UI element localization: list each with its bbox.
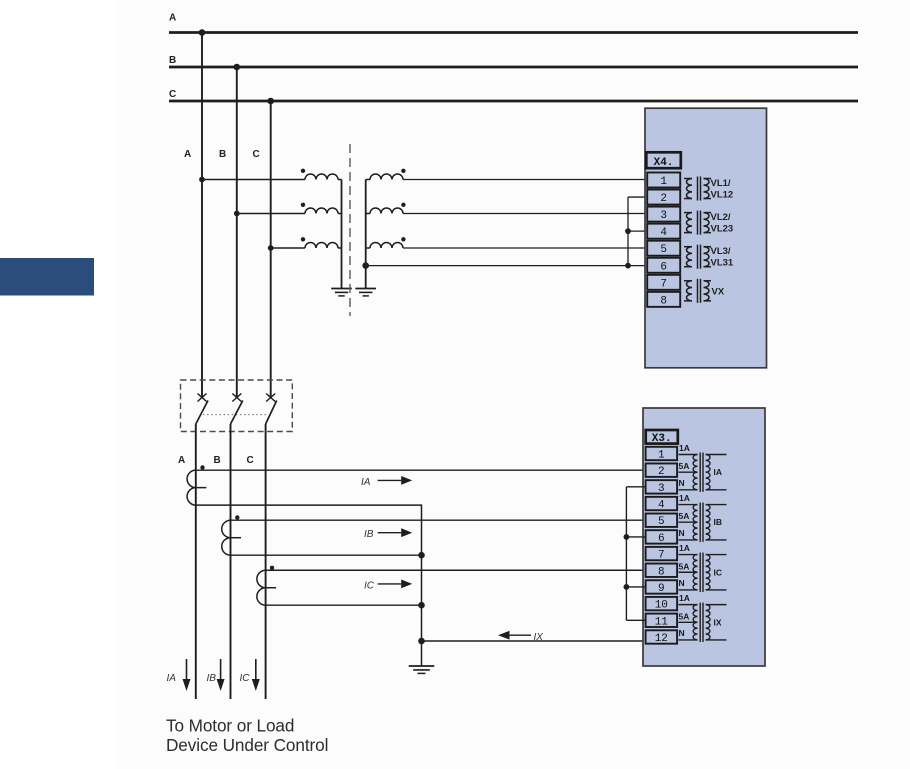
wire PT primary tap phase B (237, 213, 305, 215)
CT B polarity dot (235, 515, 239, 519)
svg-text:3: 3 (660, 210, 667, 222)
svg-text:VL31: VL31 (711, 258, 734, 269)
svg-text:12: 12 (655, 633, 668, 645)
transformer T1 primary winding 3 (305, 243, 338, 248)
terminal X3 pin 8 (646, 564, 678, 577)
svg-text:8: 8 (658, 566, 665, 578)
svg-text:2: 2 (660, 193, 667, 205)
wire PT secondary neutral (365, 180, 367, 289)
svg-text:1A: 1A (679, 443, 690, 453)
svg-text:IX: IX (534, 632, 544, 643)
svg-text:5A: 5A (679, 511, 690, 521)
svg-text:To Motor or Load: To Motor or Load (166, 716, 294, 736)
svg-text:C: C (253, 149, 260, 160)
wire phase A below breaker (195, 424, 197, 699)
wire X3 N jumper vertical (625, 487, 627, 620)
relay current input module box (643, 408, 765, 666)
wire VT secondary L2 to X4-3 (403, 213, 647, 215)
CT A winding (187, 470, 196, 505)
terminal block X3 label (646, 430, 678, 444)
node jumper X3-9 (624, 584, 630, 590)
terminal X3 pin 10 (646, 597, 678, 610)
svg-text:6: 6 (660, 261, 667, 273)
svg-text:1A: 1A (679, 543, 690, 553)
wire VT secondary L3 to X4-5 (403, 247, 647, 249)
PT core dash-dot separator (349, 144, 351, 316)
svg-text:2: 2 (658, 466, 665, 478)
svg-text:5: 5 (660, 244, 667, 256)
node S2 bus junction C (418, 602, 425, 609)
bus B (169, 66, 858, 69)
CT B winding (222, 520, 231, 555)
ground PT secondary (355, 288, 376, 290)
CT B mid tap tick (231, 537, 242, 539)
wire jumper stub X3-6 (626, 536, 645, 538)
node jumper X4-6 (625, 263, 631, 269)
svg-text:N: N (679, 628, 685, 638)
node bus C junction (267, 98, 274, 105)
CT C winding (257, 570, 266, 605)
node tap junction C (268, 245, 274, 251)
svg-text:9: 9 (658, 583, 665, 595)
svg-text:7: 7 (660, 278, 667, 290)
terminal X4 pin 2 (647, 190, 680, 205)
sidebar navy tab (0, 258, 94, 296)
terminal X3 pin 4 (646, 497, 678, 510)
svg-text:N: N (679, 528, 685, 538)
polarity dot primary 2 (301, 203, 305, 207)
terminal X3 pin 6 (646, 530, 678, 543)
svg-text:A: A (178, 455, 185, 466)
load current arrow IA (186, 659, 188, 679)
CT A mid tap tick (196, 487, 207, 489)
svg-text:3: 3 (658, 483, 665, 495)
terminal X4 pin 1 (647, 173, 680, 188)
svg-text:4: 4 (660, 227, 667, 239)
CT C mid tap tick (266, 587, 277, 589)
terminal X3 pin 1 (646, 447, 678, 460)
breaker pole C blade (266, 401, 277, 425)
terminal X4 pin 8 (647, 292, 680, 307)
terminal X4 pin 3 (647, 207, 680, 222)
wire phase B drop (236, 67, 238, 397)
bus C (169, 100, 858, 103)
svg-text:IB: IB (364, 529, 374, 540)
svg-text:IB: IB (714, 517, 723, 527)
terminal block X4 label (646, 152, 681, 168)
wire CT A S1 to X3-2 (IA) (196, 469, 646, 471)
ground PT primary (331, 288, 352, 290)
terminal X4 pin 7 (647, 275, 680, 290)
relay voltage input module box (645, 108, 767, 368)
svg-text:VL12: VL12 (711, 190, 734, 201)
terminal X3 pin 12 (646, 630, 678, 643)
wire CT B S2 return (231, 554, 422, 556)
CT A polarity dot (200, 465, 204, 469)
svg-text:A: A (169, 13, 176, 24)
svg-text:5A: 5A (679, 461, 690, 471)
polarity dot secondary 1 (401, 169, 405, 173)
wire CT C S2 return (266, 604, 422, 606)
svg-text:IX: IX (714, 617, 722, 627)
svg-text:N: N (679, 478, 685, 488)
svg-text:5A: 5A (679, 561, 690, 571)
svg-text:B: B (169, 55, 176, 66)
svg-text:VL23: VL23 (711, 224, 734, 235)
wire PT primary neutral (341, 180, 343, 289)
svg-text:VL2/: VL2/ (711, 212, 731, 223)
voltage input transformer U2 (684, 211, 711, 235)
voltage input transformer U1 (684, 177, 711, 201)
label IX arrow (498, 631, 510, 640)
svg-text:10: 10 (655, 600, 668, 612)
wire jumper to X4-2 (628, 196, 647, 198)
svg-text:IC: IC (714, 567, 723, 577)
svg-text:IA: IA (361, 477, 371, 488)
polarity dot secondary 2 (401, 203, 405, 207)
terminal X4 pin 4 (647, 224, 680, 239)
node secondary neutral junction (362, 262, 369, 269)
terminal X3 pin 2 (646, 463, 678, 476)
wire CT A S2 return (196, 505, 422, 665)
polarity dot primary 3 (301, 237, 305, 241)
transformer T1 primary winding 2 (305, 208, 338, 213)
load current arrow IC (255, 659, 257, 679)
svg-text:1: 1 (660, 176, 667, 188)
terminal X3 pin 5 (646, 514, 678, 527)
svg-text:C: C (169, 89, 176, 100)
svg-text:N: N (679, 578, 685, 588)
svg-text:Device Under Control: Device Under Control (166, 735, 328, 755)
wire phase A drop (201, 33, 203, 398)
polarity dot secondary 3 (401, 237, 405, 241)
wire IX to X3-12 (422, 640, 646, 642)
terminal X3 pin 9 (646, 580, 678, 593)
svg-text:B: B (214, 455, 221, 466)
polarity dot primary 1 (301, 169, 305, 173)
wire jumper stub X3-3 (626, 486, 645, 488)
transformer T1 primary winding 1 (305, 174, 338, 180)
transformer T1 secondary winding 3 (366, 247, 370, 249)
svg-text:1A: 1A (679, 593, 690, 603)
node jumper X4-4 (625, 228, 631, 234)
svg-text:A: A (184, 149, 191, 160)
terminal X3 pin 11 (646, 614, 678, 627)
svg-text:B: B (219, 149, 226, 160)
terminal X3 pin 7 (646, 547, 678, 560)
wire phase B below breaker (230, 424, 232, 699)
svg-text:5A: 5A (679, 611, 690, 621)
svg-text:1A: 1A (679, 493, 690, 503)
node bus A junction (199, 29, 206, 36)
svg-text:8: 8 (660, 295, 667, 307)
svg-text:7: 7 (658, 550, 665, 562)
breaker pole C contact X (266, 394, 275, 402)
wire jumper stub X3-9 (626, 586, 645, 588)
transformer T1 secondary winding 2 (366, 213, 370, 215)
wire VT neutral to X4-6 (366, 265, 648, 267)
load current arrow IB (220, 659, 222, 679)
svg-text:VL3/: VL3/ (711, 246, 731, 257)
breaker pole A contact X (198, 394, 207, 402)
wire jumper to X4-4 (628, 230, 647, 232)
svg-text:VX: VX (712, 286, 725, 297)
svg-text:IA: IA (714, 467, 723, 477)
voltage input transformer U3 (684, 245, 711, 269)
node bus B junction (234, 64, 241, 71)
node IX junction (418, 638, 425, 645)
wire phase C below breaker (265, 424, 267, 699)
svg-text:X4.: X4. (654, 157, 674, 169)
terminal X4 pin 5 (647, 241, 680, 256)
wire phase C drop (270, 101, 272, 397)
svg-text:IA: IA (167, 673, 177, 684)
wire PT primary tap phase A (202, 179, 305, 181)
node jumper X3-6 (624, 534, 630, 540)
breaker linkage dotted line (203, 414, 269, 416)
wire CT C S1 to X3-8 (IC) (266, 569, 646, 571)
svg-text:C: C (247, 455, 254, 466)
wire PT primary tap phase C (271, 247, 305, 249)
svg-text:4: 4 (658, 500, 665, 512)
CT C polarity dot (270, 566, 274, 570)
svg-text:5: 5 (658, 516, 665, 528)
terminal X3 pin 3 (646, 480, 678, 493)
svg-text:1: 1 (658, 450, 665, 462)
bus A (169, 31, 858, 34)
voltage input transformer U4 (684, 279, 711, 303)
node S2 bus junction B (418, 552, 425, 559)
wire VT secondary L1 to X4-1 (403, 179, 647, 181)
svg-text:11: 11 (655, 616, 669, 628)
terminal X4 pin 6 (647, 258, 680, 273)
breaker pole B contact X (232, 394, 241, 402)
wire X4 neutral jumper vertical (627, 197, 629, 266)
breaker pole B blade (231, 401, 243, 425)
svg-text:IB: IB (207, 673, 217, 684)
circuit breaker dashed enclosure (181, 380, 293, 432)
node tap junction B (234, 211, 240, 217)
wire CT B S1 to X3-5 (IB) (231, 519, 646, 521)
ground CT common (409, 665, 435, 667)
node tap junction A (199, 177, 205, 183)
svg-text:IC: IC (364, 581, 375, 592)
transformer T1 secondary winding 1 (366, 179, 370, 181)
svg-text:6: 6 (658, 533, 665, 545)
svg-text:VL1/: VL1/ (711, 178, 731, 189)
svg-text:X3.: X3. (652, 433, 672, 445)
svg-text:IC: IC (240, 673, 251, 684)
breaker pole A blade (196, 401, 208, 425)
wire jumper stub X3-11 (626, 619, 645, 621)
